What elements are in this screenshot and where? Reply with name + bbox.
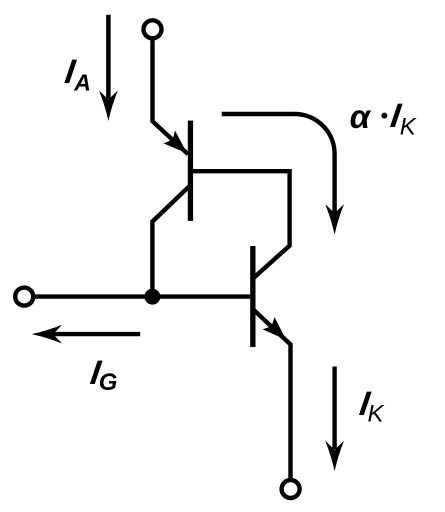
wire gate horizontal [33,294,250,298]
terminal A (anode, top circle) [144,20,162,38]
transistor Q1 emitter arrowhead (PNP, points into base) [163,131,192,160]
wire Q2 emitter diagonal + cathode vertical [254,310,291,479]
svg-text:α: α [350,98,372,135]
arrow I_A [99,15,118,121]
arrow I_G [32,325,141,344]
curved arrow alpha*I_K [222,114,344,235]
transistor Q2 base bar [250,246,255,347]
wire Q1 base to Q2 collector (horizontal, vertical, diagonal) [193,171,290,278]
svg-text:G: G [99,369,118,396]
transistor Q1 base bar [188,121,193,221]
transistor Q2 emitter arrowhead (NPN, points away from base) [263,317,292,346]
svg-text:K: K [400,114,417,141]
label multiplication dot [381,113,387,119]
wire Q1 collector diagonal + vertical to gate node [152,185,190,296]
terminal K (cathode, bottom circle) [282,480,300,498]
arrow I_K [325,367,344,472]
terminal G (gate, left circle) [15,288,33,306]
junction dot gate node [144,289,160,305]
wire anode vertical + Q1 emitter diagonal [153,38,189,154]
svg-text:A: A [73,70,91,96]
svg-text:K: K [368,400,385,427]
